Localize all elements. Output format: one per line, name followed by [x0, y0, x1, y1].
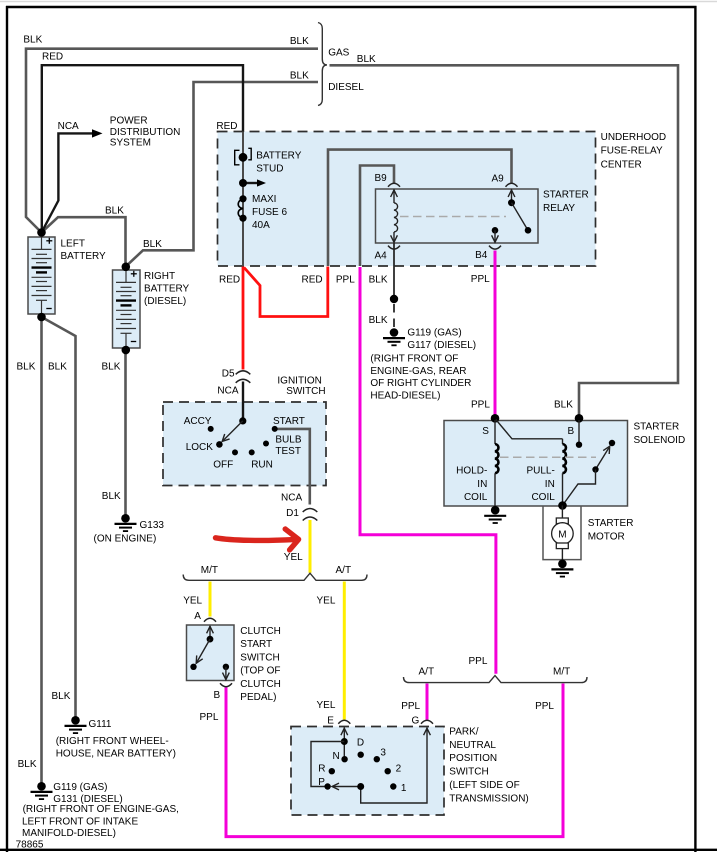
left battery box — [28, 237, 55, 314]
svg-text:40A: 40A — [252, 220, 270, 231]
svg-text:STARTER: STARTER — [588, 518, 634, 529]
svg-text:BLK: BLK — [369, 315, 388, 326]
svg-text:BATTERY: BATTERY — [256, 150, 302, 161]
solenoid switch blade — [563, 440, 615, 505]
terminal A9 — [506, 183, 518, 187]
ground starter solenoid hold-in coil — [484, 506, 506, 523]
svg-text:GAS: GAS — [328, 48, 349, 59]
wire D5 to ignition pivot — [242, 382, 244, 422]
svg-text:YEL: YEL — [317, 596, 336, 607]
terminal B4 — [489, 246, 501, 250]
wire battery stud through maxi fuse — [242, 132, 244, 267]
node A4 ground splice — [390, 295, 398, 303]
wire relay A4 to ground junction — [393, 243, 395, 299]
relay switch A9-B4 — [492, 190, 532, 243]
svg-text:78865: 78865 — [16, 840, 44, 851]
svg-text:LEFT FRONT OF INTAKE: LEFT FRONT OF INTAKE — [22, 816, 138, 827]
terminal A clutch — [204, 618, 216, 622]
svg-text:DISTRIBUTION: DISTRIBUTION — [110, 127, 181, 138]
solenoid hold-in coil — [495, 420, 498, 506]
svg-text:(RIGHT FRONT OF ENGINE-GAS,: (RIGHT FRONT OF ENGINE-GAS, — [23, 804, 179, 815]
battery stud — [235, 148, 252, 165]
node START — [272, 426, 278, 432]
svg-text:STUD: STUD — [256, 163, 283, 174]
wire BLK gas to starter solenoid B — [330, 65, 679, 417]
svg-text:RED: RED — [302, 275, 323, 286]
svg-text:B4: B4 — [475, 250, 488, 261]
svg-text:BLK: BLK — [48, 361, 67, 372]
svg-text:(RIGHT FRONT WHEEL-: (RIGHT FRONT WHEEL- — [56, 736, 169, 747]
wire BLK gas feed top-left — [26, 49, 318, 232]
clutch switch internals — [190, 626, 229, 680]
svg-text:D1: D1 — [286, 508, 299, 519]
node park D — [358, 752, 364, 758]
ignition switch pivot and blade — [222, 417, 246, 441]
svg-text:BLK: BLK — [102, 491, 121, 502]
svg-text:BLK: BLK — [554, 400, 573, 411]
svg-text:(RIGHT FRONT OF: (RIGHT FRONT OF — [370, 354, 458, 365]
wire PPL relay B4 to solenoid S — [494, 251, 497, 417]
svg-text:G119 (GAS): G119 (GAS) — [53, 782, 107, 793]
svg-text:LOCK: LOCK — [186, 442, 214, 453]
svg-text:B9: B9 — [375, 173, 388, 184]
solenoid pull-in coil — [563, 439, 566, 506]
svg-text:RED: RED — [42, 52, 63, 63]
svg-text:P: P — [318, 777, 325, 788]
brace A/T M/T ppl split — [404, 676, 588, 683]
node right battery negative — [122, 346, 131, 355]
svg-text:MAXI: MAXI — [252, 194, 276, 205]
node park 2 — [385, 768, 391, 774]
svg-text:TRANSMISSION): TRANSMISSION) — [449, 793, 528, 804]
wire solenoid B stub — [576, 420, 582, 448]
node ACCY — [208, 426, 214, 432]
svg-text:BATTERY: BATTERY — [144, 284, 190, 295]
svg-text:MANIFOLD-DIESEL): MANIFOLD-DIESEL) — [22, 828, 116, 839]
wire stud branch arrow — [243, 179, 266, 186]
svg-text:A: A — [194, 611, 201, 622]
node RUN — [249, 449, 255, 455]
node left battery positive — [37, 228, 46, 237]
top hairline — [0, 1, 717, 3]
wire YEL A/T branch to park E — [343, 582, 346, 720]
svg-text:BLK: BLK — [23, 35, 42, 46]
svg-text:PULL-: PULL- — [526, 466, 554, 477]
svg-text:HEAD-DIESEL): HEAD-DIESEL) — [370, 391, 440, 402]
svg-text:ACCY: ACCY — [184, 416, 212, 427]
right battery RIGHT BATTERY (DIESEL) internals — [116, 270, 137, 347]
svg-text:RELAY: RELAY — [543, 203, 575, 214]
brace gas/diesel — [318, 23, 327, 106]
node park 3 — [374, 756, 380, 762]
node stud branch — [239, 179, 247, 187]
svg-text:N: N — [333, 751, 340, 762]
svg-text:G133: G133 — [140, 520, 165, 531]
svg-text:STARTER: STARTER — [634, 421, 680, 432]
node park 1 — [390, 783, 396, 789]
svg-text:BATTERY: BATTERY — [61, 251, 107, 262]
svg-text:G: G — [412, 715, 420, 726]
svg-text:DIESEL: DIESEL — [328, 82, 364, 93]
svg-text:PPL: PPL — [469, 656, 488, 667]
svg-text:NCA: NCA — [281, 493, 302, 504]
svg-text:2: 2 — [396, 764, 402, 775]
park switch E leg — [341, 728, 348, 759]
starter motor M1 — [543, 506, 581, 563]
svg-text:SWITCH: SWITCH — [449, 767, 488, 778]
starter solenoid box — [444, 421, 628, 507]
svg-text:D: D — [357, 738, 364, 749]
svg-text:D5: D5 — [222, 368, 235, 379]
left battery LEFT BATTERY internals — [32, 237, 53, 314]
svg-text:START: START — [273, 416, 305, 427]
svg-text:BLK: BLK — [102, 361, 121, 372]
svg-text:G119 (GAS): G119 (GAS) — [407, 327, 461, 338]
starter relay box — [376, 189, 539, 243]
svg-text:M/T: M/T — [553, 667, 570, 678]
svg-text:TEST: TEST — [275, 446, 301, 457]
wire NCA to power distribution — [42, 129, 103, 232]
brace M/T A/T yellow split — [183, 573, 367, 580]
svg-text:BLK: BLK — [18, 759, 37, 770]
svg-text:3: 3 — [380, 748, 386, 759]
svg-text:RUN: RUN — [251, 460, 273, 471]
svg-text:FUSE 6: FUSE 6 — [252, 207, 287, 218]
svg-text:BLK: BLK — [17, 361, 36, 372]
wire RED detour loop to feed rail — [244, 267, 328, 317]
svg-text:A4: A4 — [375, 251, 388, 262]
svg-text:PEDAL): PEDAL) — [240, 692, 276, 703]
svg-text:PPL: PPL — [535, 701, 554, 712]
connector D1 — [303, 509, 318, 521]
ignition switch box — [163, 402, 326, 486]
right battery box — [113, 270, 141, 348]
wire PPL A/T branch to park G — [426, 684, 429, 720]
svg-text:BLK: BLK — [105, 206, 124, 217]
underhood fuse-relay center box — [218, 132, 596, 267]
svg-text:M: M — [558, 529, 566, 540]
ground G119 (GAS) / G131 (DIESEL) — [31, 782, 53, 799]
wire solenoid S to pull-in coil — [496, 420, 563, 439]
svg-text:FUSE-RELAY: FUSE-RELAY — [601, 146, 663, 157]
svg-text:HOLD-: HOLD- — [456, 466, 487, 477]
svg-text:POSITION: POSITION — [449, 753, 497, 764]
svg-text:PARK/: PARK/ — [449, 726, 478, 737]
svg-text:HOUSE, NEAR BATTERY): HOUSE, NEAR BATTERY) — [56, 749, 176, 760]
terminal A4 — [388, 246, 400, 250]
svg-text:YEL: YEL — [183, 596, 202, 607]
wire YEL D1 to brace — [309, 520, 312, 573]
svg-text:NCA: NCA — [58, 121, 79, 132]
svg-text:PPL: PPL — [401, 701, 420, 712]
node park P — [324, 783, 330, 789]
svg-text:SWITCH: SWITCH — [240, 652, 279, 663]
relay coil B9-A4 — [391, 190, 398, 243]
svg-text:BLK: BLK — [369, 275, 388, 286]
red annotation arrow — [216, 529, 299, 550]
svg-text:PPL: PPL — [471, 400, 490, 411]
park switch wiper — [332, 783, 361, 790]
wire RED left battery positive loop to battery stud — [42, 65, 243, 232]
wire YEL M/T branch to clutch A — [209, 582, 212, 617]
svg-text:1: 1 — [401, 783, 407, 794]
svg-text:SOLENOID: SOLENOID — [634, 435, 686, 446]
svg-text:UNDERHOOD: UNDERHOOD — [601, 132, 667, 143]
node park wiper common — [357, 783, 364, 790]
wire PPL main B9 to brace — [360, 267, 496, 674]
svg-text:(TOP OF: (TOP OF — [240, 666, 280, 677]
svg-text:CLUTCH: CLUTCH — [240, 626, 281, 637]
wire PPL M/T loop to clutch B — [226, 684, 563, 837]
terminal B clutch — [220, 683, 232, 687]
svg-text:BLK: BLK — [290, 71, 309, 82]
ground starter motor — [551, 560, 573, 577]
svg-text:RED: RED — [216, 121, 237, 132]
terminal B9 — [388, 183, 400, 187]
svg-text:CENTER: CENTER — [601, 159, 642, 170]
node BULB TEST — [263, 441, 269, 447]
node park N — [341, 756, 347, 762]
terminal E park — [338, 720, 350, 724]
svg-text:(ON ENGINE): (ON ENGINE) — [94, 533, 157, 544]
wire BLK dashed to G119/G117 — [393, 304, 395, 329]
node solenoid B — [575, 414, 584, 423]
wire BLK between batteries — [42, 217, 126, 265]
wire RED fuse to ignition D5 — [242, 267, 245, 370]
svg-text:A9: A9 — [492, 173, 505, 184]
svg-text:M/T: M/T — [201, 565, 218, 576]
svg-text:(LEFT SIDE OF: (LEFT SIDE OF — [449, 780, 519, 791]
terminal G park — [421, 720, 433, 724]
node left battery negative — [37, 313, 46, 322]
svg-text:E: E — [327, 715, 334, 726]
svg-text:BLK: BLK — [290, 36, 309, 47]
node solenoid coil to motor — [558, 501, 567, 510]
ground G119 (GAS) / G117 (DIESEL) — [383, 328, 405, 345]
svg-text:YEL: YEL — [284, 552, 303, 563]
node OFF — [232, 449, 238, 455]
node park R — [329, 768, 335, 774]
svg-text:A/T: A/T — [419, 667, 435, 678]
clutch start switch box — [187, 625, 235, 681]
wire feed rail to relay A9 — [328, 150, 512, 266]
svg-text:SYSTEM: SYSTEM — [110, 138, 151, 149]
svg-text:B: B — [568, 426, 575, 437]
node solenoid S — [491, 414, 500, 423]
svg-text:S: S — [482, 426, 489, 437]
svg-text:NEUTRAL: NEUTRAL — [449, 740, 496, 751]
wire PPL relay B9 inside box — [360, 166, 394, 267]
wire BLK right battery to G133 — [124, 350, 127, 517]
svg-text:(DIESEL): (DIESEL) — [144, 296, 186, 307]
svg-text:G117 (DIESEL): G117 (DIESEL) — [407, 340, 476, 351]
svg-text:COIL: COIL — [464, 492, 488, 503]
wire BLK diesel feed — [127, 82, 319, 266]
park switch loop to P — [311, 742, 344, 787]
relay internal dashed link — [400, 216, 506, 218]
svg-text:COIL: COIL — [531, 492, 555, 503]
svg-text:CLUTCH: CLUTCH — [240, 679, 281, 690]
svg-text:R: R — [318, 763, 325, 774]
svg-text:RED: RED — [219, 275, 240, 286]
svg-text:PPL: PPL — [336, 275, 355, 286]
svg-text:ENGINE-GAS, REAR: ENGINE-GAS, REAR — [370, 366, 466, 377]
ground G111 — [65, 716, 87, 733]
svg-text:OF RIGHT CYLINDER: OF RIGHT CYLINDER — [370, 378, 471, 389]
svg-text:STARTER: STARTER — [543, 190, 589, 201]
svg-text:G111: G111 — [89, 719, 112, 730]
svg-text:BULB: BULB — [275, 434, 301, 445]
svg-text:BLK: BLK — [357, 54, 376, 65]
park switch G leg — [361, 728, 431, 804]
wire ignition START to D1 — [275, 429, 310, 505]
wire BLK left battery to G119 — [40, 317, 43, 786]
node right battery positive — [122, 263, 131, 272]
park/neutral position switch box — [291, 727, 444, 816]
svg-text:MOTOR: MOTOR — [588, 531, 625, 542]
svg-text:PPL: PPL — [200, 712, 219, 723]
svg-text:BLK: BLK — [143, 239, 162, 250]
svg-text:BLK: BLK — [52, 691, 71, 702]
fuse MAXI FUSE 6 40A — [238, 195, 246, 222]
svg-text:B: B — [214, 690, 221, 701]
svg-text:START: START — [240, 639, 272, 650]
svg-text:RIGHT: RIGHT — [144, 271, 175, 282]
svg-text:POWER: POWER — [110, 116, 148, 127]
svg-text:OFF: OFF — [213, 460, 233, 471]
svg-text:A/T: A/T — [336, 565, 352, 576]
solenoid internal dashed link — [500, 456, 596, 458]
svg-text:IN: IN — [477, 479, 487, 490]
node LOCK — [216, 441, 223, 448]
svg-text:PPL: PPL — [471, 274, 490, 285]
svg-text:YEL: YEL — [317, 700, 336, 711]
wire BLK left battery to G111 — [42, 317, 76, 719]
connector D5 — [236, 371, 251, 383]
svg-text:NCA: NCA — [217, 385, 238, 396]
ground G133 — [115, 514, 137, 531]
svg-text:SWITCH: SWITCH — [286, 386, 325, 397]
svg-text:LEFT: LEFT — [61, 238, 85, 249]
svg-text:IN: IN — [545, 479, 555, 490]
